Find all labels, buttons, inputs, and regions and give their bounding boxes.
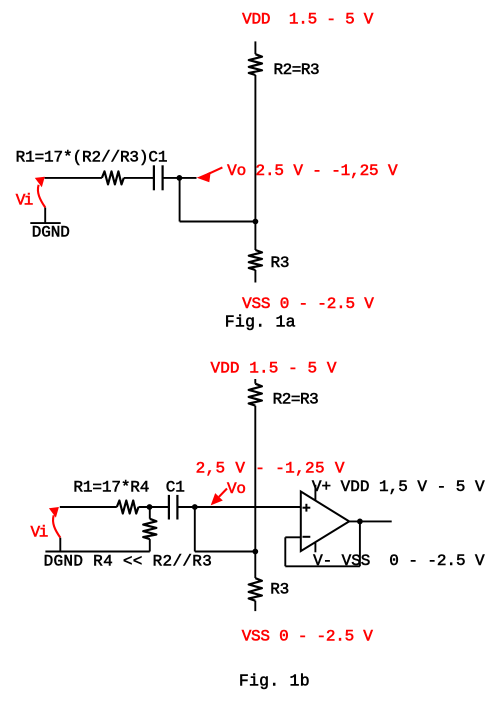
svg-text:R2=R3: R2=R3	[273, 391, 319, 409]
svg-text:DGND R4 << R2//R3: DGND R4 << R2//R3	[44, 552, 212, 570]
svg-text:VSS 0 - -2.5 V: VSS 0 - -2.5 V	[242, 295, 374, 313]
svg-text:Vo: Vo	[227, 480, 246, 498]
svg-text:V+ VDD 1,5 V - 5 V: V+ VDD 1,5 V - 5 V	[312, 478, 485, 496]
svg-text:Vi: Vi	[16, 192, 34, 210]
svg-text:V- VSS 0 - -2.5 V: V- VSS 0 - -2.5 V	[313, 552, 485, 570]
svg-text:Fig. 1b: Fig. 1b	[239, 672, 310, 691]
svg-text:Vi: Vi	[31, 524, 49, 542]
svg-text:C1: C1	[166, 479, 185, 497]
svg-text:VDD 1.5 - 5 V: VDD 1.5 - 5 V	[211, 359, 337, 377]
svg-text:R1=17*R4: R1=17*R4	[73, 479, 149, 497]
svg-text:R3: R3	[271, 254, 290, 272]
svg-text:R3: R3	[270, 581, 289, 599]
svg-text:R2=R3: R2=R3	[274, 61, 320, 79]
svg-text:2,5 V - -1,25 V: 2,5 V - -1,25 V	[196, 460, 345, 478]
svg-text:Vo 2.5 V - -1,25 V: Vo 2.5 V - -1,25 V	[227, 162, 398, 180]
svg-text:VSS 0 - -2.5 V: VSS 0 - -2.5 V	[242, 627, 374, 645]
svg-text:VDD 1.5 - 5 V: VDD 1.5 - 5 V	[242, 10, 374, 28]
svg-text:Fig. 1a: Fig. 1a	[225, 313, 296, 332]
svg-text:DGND: DGND	[32, 223, 70, 241]
svg-text:R1=17*(R2//R3)C1: R1=17*(R2//R3)C1	[16, 149, 168, 167]
